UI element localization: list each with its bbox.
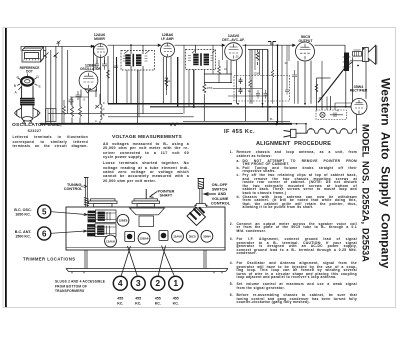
resistor R osc 2 (79, 107, 82, 117)
small caps inside enclosure (239, 78, 243, 95)
gang cover trapezoid on chassis (130, 208, 165, 227)
circled number 5 (38, 205, 51, 218)
svg-text:1Δ: 1Δ (248, 89, 252, 93)
svg-text:12BE6: 12BE6 (119, 219, 128, 223)
resistor mixer screen (107, 70, 110, 78)
antenna trimmer symbol on top wire (57, 41, 61, 47)
tube T2 12BA6 IF amp (161, 43, 175, 57)
circled number 6 (38, 227, 51, 240)
svg-text:455: 455 (173, 297, 179, 301)
alignment item 1. (230, 151, 233, 154)
svg-text:A: A (15, 91, 18, 95)
svg-text:CONTROL: CONTROL (211, 200, 231, 205)
grid cap arrows (30, 44, 296, 57)
det diode load cluster (218, 60, 221, 83)
svg-text:B: B (103, 113, 105, 117)
T1 stems (96, 57, 98, 64)
svg-text:MEG: MEG (165, 79, 171, 83)
svg-text:B.C. OSC.: B.C. OSC. (14, 208, 31, 212)
svg-text:D: D (37, 75, 40, 79)
svg-text:4: 4 (118, 278, 123, 288)
svg-text:47: 47 (337, 110, 340, 113)
label oscillator coil heading (12, 124, 62, 129)
alignment item 5. (230, 283, 233, 286)
svg-text:I.F. AMP.: I.F. AMP. (161, 37, 175, 41)
svg-text:5: 5 (42, 207, 47, 216)
IF2 leads (195, 45, 197, 53)
IF transformer 1 (dashed can) (121, 51, 155, 71)
alignment item a. (237, 160, 240, 163)
svg-text:455: 455 (155, 297, 161, 301)
trimmer stack 2 (BC ant) (88, 224, 117, 237)
svg-text:D: D (103, 101, 105, 105)
svg-text:SLUGS 2 AND 4 ACCESSIBLE: SLUGS 2 AND 4 ACCESSIBLE (55, 280, 105, 284)
svg-text:3: 3 (136, 278, 141, 288)
left black margin bar (5, 28, 7, 307)
wire: T4 to output transformer (315, 45, 346, 53)
padder trimmer arrows (95, 105, 100, 109)
svg-text:1: 1 (173, 278, 178, 288)
T5 oscillator stems and components (80, 90, 82, 98)
alignment item 6. (230, 294, 233, 297)
tube T5 12BE6 oscillator (79, 71, 98, 90)
wire: T1 to T2 top (108, 44, 161, 46)
bus line B+ upper (108, 103, 232, 105)
extra verticals mixer area (113, 45, 115, 104)
det area extra horizontals (213, 88, 262, 90)
svg-text:2: 2 (155, 278, 160, 288)
wire mid horizontal (108, 116, 194, 118)
svg-text:KC.: KC. (155, 301, 161, 305)
svg-text:.02: .02 (284, 62, 288, 65)
svg-text:MIXER: MIXER (94, 37, 105, 41)
svg-text:35C5: 35C5 (189, 235, 196, 239)
svg-text:TRANSFORMERS: TRANSFORMERS (55, 289, 84, 293)
oscillator coil illustration (15, 74, 41, 124)
svg-text:MODEL NOS. D2552A, D2553A: MODEL NOS. D2552A, D2553A (361, 124, 371, 262)
chassis legs (85, 250, 206, 269)
tube T6 35W4 rectifier (351, 99, 367, 115)
note oscillator coil (13, 136, 89, 139)
AC plug (284, 124, 308, 138)
osc step wire (89, 87, 97, 92)
mixer grid drop to oscillator (92, 46, 94, 71)
tube T4 50C5 output (296, 42, 315, 61)
T2 stems (162, 57, 164, 104)
extra right verticals (321, 61, 323, 78)
pointer shaft disc (132, 189, 160, 207)
svg-text:Western Auto Supply Company: Western Auto Supply Company (379, 78, 393, 269)
extra verticals T2/IF2 (170, 57, 172, 104)
svg-text:RECTIFIER: RECTIFIER (350, 88, 368, 92)
T4 stems (297, 61, 299, 104)
svg-text:E: E (84, 98, 86, 102)
alignment item 3. (230, 238, 233, 241)
svg-text:12AV6: 12AV6 (173, 235, 182, 239)
verticals right of T3 (249, 50, 251, 104)
dashed enclosure volume/switch (234, 76, 290, 102)
svg-text:C: C (103, 107, 105, 111)
output transformer (353, 50, 362, 56)
tube socket circles on chassis (105, 214, 213, 247)
cap on mixer cathode (102, 60, 107, 70)
resistor R osc 1 (71, 107, 74, 117)
volume control verticals (245, 45, 247, 121)
svg-text:455: 455 (117, 297, 123, 301)
left vertical wires (45, 46, 47, 124)
ground triangle near osc (85, 89, 91, 94)
wire: top grid wire left section (21, 46, 93, 50)
svg-text:B–: B– (270, 117, 274, 121)
chassis flange line (66, 247, 225, 249)
T3 stems (226, 60, 228, 74)
extra wires for density (46, 45, 353, 124)
T4 screen caps (292, 70, 297, 82)
alignment item c. (237, 174, 240, 177)
resistor left a (63, 100, 66, 124)
caps in enclosure row (256, 90, 260, 99)
svg-text:KC.: KC. (117, 301, 123, 305)
trimmer stack 1 (BC osc) (88, 210, 116, 223)
filament chain humps (296, 128, 357, 133)
left cluster components box 24S (46, 109, 57, 122)
svg-text:KC.: KC. (135, 301, 141, 305)
svg-text:12AU6: 12AU6 (106, 239, 115, 243)
para voltage measurements 2 (103, 162, 189, 166)
loop antenna box (22, 47, 46, 62)
svg-text:B.C. ANT.: B.C. ANT. (15, 230, 32, 234)
svg-text:SHAFT: SHAFT (160, 194, 173, 198)
svg-text:.05: .05 (318, 96, 322, 100)
junction dots (45, 44, 359, 124)
svg-text:B: B (14, 84, 17, 88)
alignment item b. (237, 167, 241, 170)
wire: T2 to T3 top (175, 44, 225, 46)
diagonal B+ wire to rectifier (318, 67, 346, 103)
svg-text:DET.–AVC–AF.: DET.–AVC–AF. (222, 38, 245, 42)
dial lamp dashed box (316, 110, 347, 120)
IF1 leads (130, 45, 132, 54)
chassis box (66, 207, 225, 250)
volume control shaft (194, 179, 208, 208)
tuning control shaft (84, 178, 89, 208)
svg-text:KC.: KC. (173, 301, 179, 305)
IF1 bottom leads (127, 70, 139, 117)
speaker (363, 45, 377, 64)
svg-text:.05: .05 (235, 56, 239, 59)
svg-text:220K: 220K (254, 73, 260, 76)
heading voltage measurements (112, 136, 182, 141)
cap symbol left (69, 96, 74, 105)
resistor under T2 (165, 78, 168, 95)
svg-text:IF 455 Kc.: IF 455 Kc. (224, 129, 255, 135)
svg-text:FROM BOTTOM OF: FROM BOTTOM OF (55, 284, 87, 288)
wire: T3 to T4 top (243, 44, 296, 46)
callout lines to numbered circles (51, 185, 216, 277)
svg-text:1500 KC.: 1500 KC. (15, 235, 31, 239)
IF transformer 2 (dashed can) (186, 50, 216, 70)
alignment item 2. (230, 223, 233, 226)
tube T1 12AU6 mixer (94, 44, 108, 58)
svg-text:A: A (95, 119, 97, 123)
svg-text:E: E (39, 85, 42, 89)
resistor right (315, 84, 318, 92)
alignment item d. (237, 196, 241, 199)
trimmer arrows left (44, 53, 49, 58)
circled numbers 4 3 2 1 (113, 276, 182, 290)
bus line mid (48, 113, 183, 115)
svg-text:OSCILLATOR: OSCILLATOR (80, 67, 102, 71)
svg-text:12BA6: 12BA6 (140, 237, 149, 241)
chassis rear view (66, 207, 228, 273)
chassis base plate (66, 269, 228, 272)
alignment item 4. (230, 262, 233, 265)
dial drum discs on chassis top (89, 199, 118, 207)
oscillator coil winding symbol (100, 104, 102, 120)
right area verticals (316, 78, 318, 110)
svg-text:CONTROL: CONTROL (64, 187, 83, 191)
tube T3 12AV6 det-avc-af (225, 43, 243, 61)
para voltage measurements 1 (103, 143, 189, 147)
osc grid cap and resistor (76, 91, 81, 100)
hatched transformer diamond (187, 208, 206, 226)
svg-text:DOT: DOT (26, 70, 33, 74)
IF adjust sockets (squares with dots) (125, 231, 168, 242)
svg-text:OUTPUT: OUTPUT (299, 39, 314, 43)
resistor AVC (203, 84, 206, 93)
svg-text:TUNING: TUNING (67, 183, 82, 187)
svg-text:TRIMMER LOCATIONS: TRIMMER LOCATIONS (23, 256, 76, 261)
bus line B- heavy (40, 123, 292, 125)
svg-text:35W4: 35W4 (203, 235, 211, 239)
B- symbol (170, 121, 279, 126)
svg-text:6: 6 (42, 229, 47, 238)
heading alignment procedure (256, 142, 331, 148)
svg-text:455: 455 (135, 297, 141, 301)
svg-text:1650 KC.: 1650 KC. (15, 213, 31, 217)
AVC wires right of T3 (204, 73, 232, 75)
coupling caps on T3-T4 wire (268, 42, 276, 46)
electrolytic capacitor block (344, 53, 349, 72)
svg-text:470K: 470K (207, 86, 213, 90)
